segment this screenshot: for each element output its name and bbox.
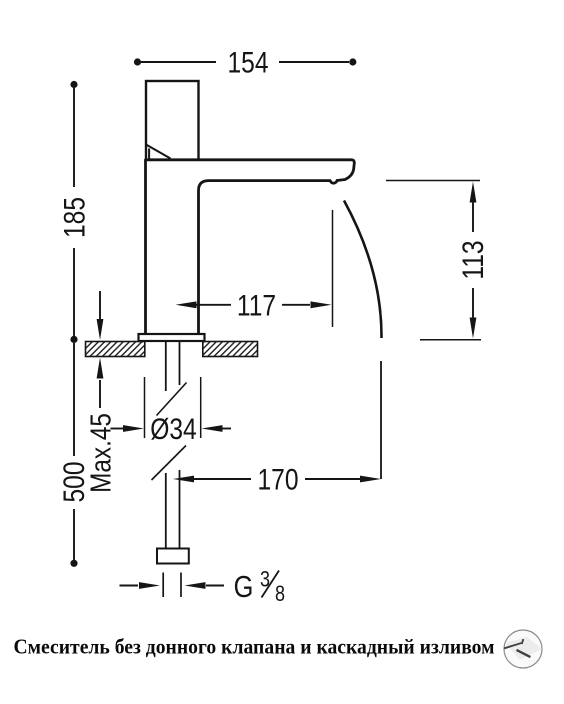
svg-text:8: 8 [275,582,285,606]
svg-text:154: 154 [227,45,268,79]
svg-text:Max.45: Max.45 [85,413,117,493]
svg-text:113: 113 [456,240,490,279]
svg-text:Ø34: Ø34 [150,412,196,446]
svg-text:3: 3 [260,568,270,592]
svg-text:G: G [234,570,254,605]
svg-text:170: 170 [257,462,298,496]
svg-text:185: 185 [57,197,91,238]
svg-text:117: 117 [237,288,276,322]
svg-text:Смеситель без донного клапана: Смеситель без донного клапана и каскадны… [14,635,495,659]
